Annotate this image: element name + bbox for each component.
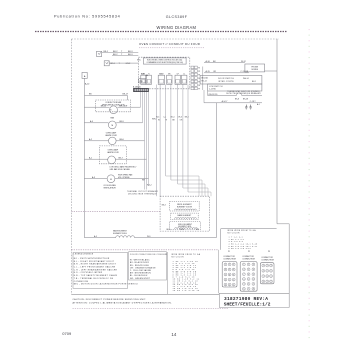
svg-text:CAUTION: DISCONNECT POWER BEFO: CAUTION: DISCONNECT POWER BEFORE SERVICI… [73,298,147,301]
svg-text:COLOR CODE/CODE DE COULEUR: COLOR CODE/CODE DE COULEUR [130,254,168,256]
svg-text:M: M [110,110,112,112]
svg-text:OR-3: OR-3 [178,116,182,118]
svg-text:P7: P7 [198,88,200,90]
svg-text:NO - SWITCH/INTERRUPTEUR: NO - SWITCH/INTERRUPTEUR [74,258,110,260]
svg-text:A-1: A-1 [89,156,92,159]
svg-text:CF: CF [177,73,179,75]
svg-text:BK-17: BK-17 [123,94,129,96]
svg-text:ATTENTION: COUPEZ L'ALIMENTATI: ATTENTION: COUPEZ L'ALIMENTATION AVANT D… [73,301,173,304]
svg-text:W-2: W-2 [196,229,199,231]
svg-text:M: M [111,125,113,127]
svg-text:BK-2: BK-2 [113,51,118,53]
svg-text:5: 5 [248,269,249,271]
svg-text:LAMPE FOUR: LAMPE FOUR [107,151,119,154]
svg-text:RD-14: RD-14 [201,81,206,83]
svg-text:5: 5 [253,284,254,286]
svg-text:7: 7 [263,276,264,278]
svg-text:P2: P2 [248,251,250,253]
svg-text:CONNECTEUR: CONNECTEUR [223,259,236,261]
svg-text:7: 7 [248,289,249,291]
svg-text:C-13 RD: C-13 RD [209,89,217,91]
svg-text:B.R - RIGHT REAR/ARRIERE DROIT: B.R - RIGHT REAR/ARRIERE DROIT [74,263,117,266]
svg-text:2: 2 [248,264,249,266]
svg-text:A-14 Y: A-14 Y [222,100,228,103]
svg-text:BAKE: BAKE [159,72,163,75]
svg-text:T: T [121,54,123,56]
svg-text:BK-3: BK-3 [162,205,166,207]
svg-text:NO COLOR: NO COLOR [172,256,185,258]
svg-text:BK-16A: BK-16A [201,77,208,80]
svg-text:OVEN CONDUIT // CONDUIT DU FOU: OVEN CONDUIT // CONDUIT DU FOUR [139,42,200,46]
svg-text:6 OR 1-6 4-6 3-: 6 OR 1-6 4-6 3-14 [229,248,251,250]
svg-text:4: 4 [263,271,264,273]
svg-text:3: 3 [225,284,226,286]
svg-text:BUS: BUS [141,74,144,76]
svg-text:ELECTRONIC OVEN CONTROL EOC (E: ELECTRONIC OVEN CONTROL EOC (ES 100) [147,60,182,62]
svg-text:5: 5 [229,269,230,271]
svg-text:CL: CL [183,73,185,75]
svg-text:W: WHITE/BLANC: W: WHITE/BLANC [130,259,150,262]
svg-text:6: 6 [253,269,254,271]
svg-text:9: 9 [233,274,234,276]
svg-text:A 140000: A 140000 [133,85,141,88]
svg-text:M: M [110,179,112,181]
svg-text:C.L - LEFT FRONT/AVANT GAUCHE: C.L - LEFT FRONT/AVANT GAUCHE [74,266,116,269]
svg-text:3: 3 [271,265,272,267]
svg-text:VENTILATEUR: VENTILATEUR [103,186,116,189]
svg-text:BK-5: BK-5 [167,229,171,231]
svg-text:WH: WH [146,75,150,77]
svg-text:2: 2 [229,264,230,266]
svg-text:BK-7: BK-7 [119,157,123,159]
svg-text:A-2: A-2 [89,138,92,141]
svg-text:14: 14 [171,332,176,337]
svg-text:C.R - LEFT REAR/ARRIERE GAUCHE: C.R - LEFT REAR/ARRIERE GAUCHE [74,268,118,271]
svg-text:INTER. PORTE: INTER. PORTE [218,81,234,83]
svg-text:CONNEXION: CONNEXION [74,281,89,283]
svg-text:BK: BK [172,120,175,122]
svg-text:WIRING DIAGRAM: WIRING DIAGRAM [157,25,197,30]
svg-text:2: 2 [253,279,254,281]
svg-text:WH-16 W: WH-16 W [119,105,127,107]
svg-text:A-5: A-5 [94,235,97,238]
svg-text:SHEET/FEUILLE:1/2: SHEET/FEUILLE:1/2 [224,302,271,308]
svg-text:0: 0 [263,281,264,283]
svg-text:P6: P6 [198,85,200,87]
svg-text:LOW SWITCH: LOW SWITCH [209,86,223,88]
svg-text:1: 1 [243,264,244,266]
svg-text:3: 3 [243,284,244,286]
svg-text:C-11 OR: C-11 OR [240,71,248,73]
svg-text:OR: OR [180,120,183,122]
svg-text:4: 4 [229,284,230,286]
svg-text:EOC: EOC [137,60,141,62]
svg-text:8: 8 [248,274,249,276]
svg-text:PROBE: PROBE [251,66,258,68]
svg-text:8: 8 [267,276,268,278]
svg-text:7: 7 [225,274,226,276]
svg-text:OR: ORANGE/ORANGE: OR: ORANGE/ORANGE [130,266,156,269]
svg-text:W: W [158,120,160,122]
svg-text:BK-15: BK-15 [101,105,106,107]
svg-text:A-3: A-3 [92,176,95,179]
svg-text:T: T [121,51,123,53]
svg-text:C/B-15 RD: C/B-15 RD [208,94,218,96]
svg-text:2: 2 [267,265,268,267]
svg-text:GLCS389F: GLCS389F [166,15,188,19]
svg-text:THERMOSTAT SHUTOFF (POWER): THERMOSTAT SHUTOFF (POWER) [227,90,259,93]
svg-text:7: 7 [243,274,244,276]
svg-text:1: 1 [225,264,226,266]
svg-text:1: 1 [267,281,268,283]
svg-text:CONNECTEUR: CONNECTEUR [261,260,274,262]
svg-text:CONNECTEUR: CONNECTEUR [242,259,255,261]
svg-text:P2: P2 [198,71,200,73]
svg-text:A-9: A-9 [90,120,93,123]
svg-text:6: 6 [243,289,244,291]
svg-text:BK-9: BK-9 [120,121,124,123]
svg-text:A-10: A-10 [85,83,90,86]
svg-text:GR: GREEN/VERT: GR: GREEN/VERT [130,278,151,280]
svg-text:A-1: A-1 [257,103,260,106]
svg-text:4: 4 [248,284,249,286]
svg-text:P3: P3 [268,251,270,253]
svg-text:T.B - TERMINAL BLOCK/BLOC DE: T.B - TERMINAL BLOCK/BLOC DE [74,277,114,280]
svg-text:4: 4 [243,269,244,271]
svg-text:WH-8: WH-8 [152,119,157,121]
svg-text:Y: YELLOW/JAUNE: Y: YELLOW/JAUNE [130,269,152,272]
svg-text:BK-28: BK-28 [243,98,248,100]
svg-text:0: 0 [225,279,226,281]
svg-text:BK-3: BK-3 [128,51,133,53]
svg-text:3: 3 [253,264,254,266]
svg-text:WH: WH [142,180,146,182]
svg-text:W-12: W-12 [241,61,247,63]
svg-text:0709: 0709 [62,331,72,336]
svg-text:E.B - TOP SAFETY/ELEMENT CHAUD: E.B - TOP SAFETY/ELEMENT CHAUD [74,274,118,277]
svg-text:BEL - MOTOR DOOR LATCH/MOTEUR: BEL - MOTOR DOOR LATCH/MOTEUR PORTE VERR… [74,283,138,286]
svg-text:9: 9 [253,274,254,276]
svg-text:0: 0 [243,279,244,281]
svg-text:1: 1 [248,279,249,281]
svg-text:ELEMENT SOLE: ELEMENT SOLE [113,233,128,235]
svg-text:BK-3: BK-3 [128,54,133,56]
svg-text:8: 8 [229,274,230,276]
svg-text:6: 6 [233,269,234,271]
svg-text:BK-1: BK-1 [104,51,109,53]
svg-text:DOOR SWITCH: DOOR SWITCH [218,78,234,80]
svg-text:1: 1 [263,265,264,267]
svg-text:HTE. VITESSE: HTE. VITESSE [118,177,130,179]
svg-text:A: A [84,75,86,78]
svg-text:P1: P1 [228,251,230,253]
svg-text:BK-8: BK-8 [235,98,239,100]
svg-text:BK-2: BK-2 [113,54,118,56]
svg-text:P1: P1 [198,67,200,69]
svg-text:318271980 REV:A: 318271980 REV:A [224,296,268,302]
svg-text:1: 1 [229,279,230,281]
svg-text:BK-6: BK-6 [120,139,124,141]
svg-text:LEGEND/LEGENDE: LEGEND/LEGENDE [74,254,94,256]
svg-text:B.L - RIGHT FRONT/AVANT DROIT: B.L - RIGHT FRONT/AVANT DROIT [74,260,115,263]
svg-text:6: 6 [271,271,272,273]
svg-text:16 BK 2-6 3-10 18: 16 BK 2-6 3-10 18 [173,290,200,292]
svg-text:SONDE: SONDE [251,69,258,71]
svg-text:ELEMENT VOUTE: ELEMENT VOUTE [177,206,193,208]
svg-text:Publication No: 5995545834: Publication No: 5995545834 [54,15,120,19]
svg-text:DISJONCTEUR THERMIQUE: DISJONCTEUR THERMIQUE [128,194,158,196]
svg-text:C-18 Y: C-18 Y [250,101,257,103]
svg-text:4: 4 [225,269,226,271]
svg-text:W-9: W-9 [147,236,150,238]
svg-text:W-5-2: W-5-2 [147,185,152,187]
svg-text:FAN: FAN [111,117,115,120]
svg-text:WH-14: WH-14 [243,78,249,80]
svg-text:P24: P24 [139,81,142,83]
svg-text:CONVECTION FAN: CONVECTION FAN [105,101,122,104]
svg-text:LAMPE FOUR: LAMPE FOUR [105,134,117,137]
svg-text:3: 3 [233,264,234,266]
svg-text:BAKE ELEMENT: BAKE ELEMENT [178,214,193,217]
svg-text:5: 5 [267,271,268,273]
svg-text:W-10: W-10 [180,229,184,231]
svg-text:GRIL BAS SOLE CACHEE: GRIL BAS SOLE CACHEE [110,168,131,171]
svg-text:2: 2 [271,281,272,283]
svg-text:5: 5 [233,284,234,286]
svg-text:E.S - CRYSTAL/LIMITER: E.S - CRYSTAL/LIMITER [74,271,103,274]
svg-text:NO COLOR: NO COLOR [228,232,241,234]
svg-text:BK: BLACK/NOIR: BK: BLACK/NOIR [130,261,150,264]
svg-text:9: 9 [271,276,272,278]
svg-text:8: 8 [253,289,254,291]
svg-text:BK-1: BK-1 [252,81,256,83]
svg-text:2: 2 [233,279,234,281]
